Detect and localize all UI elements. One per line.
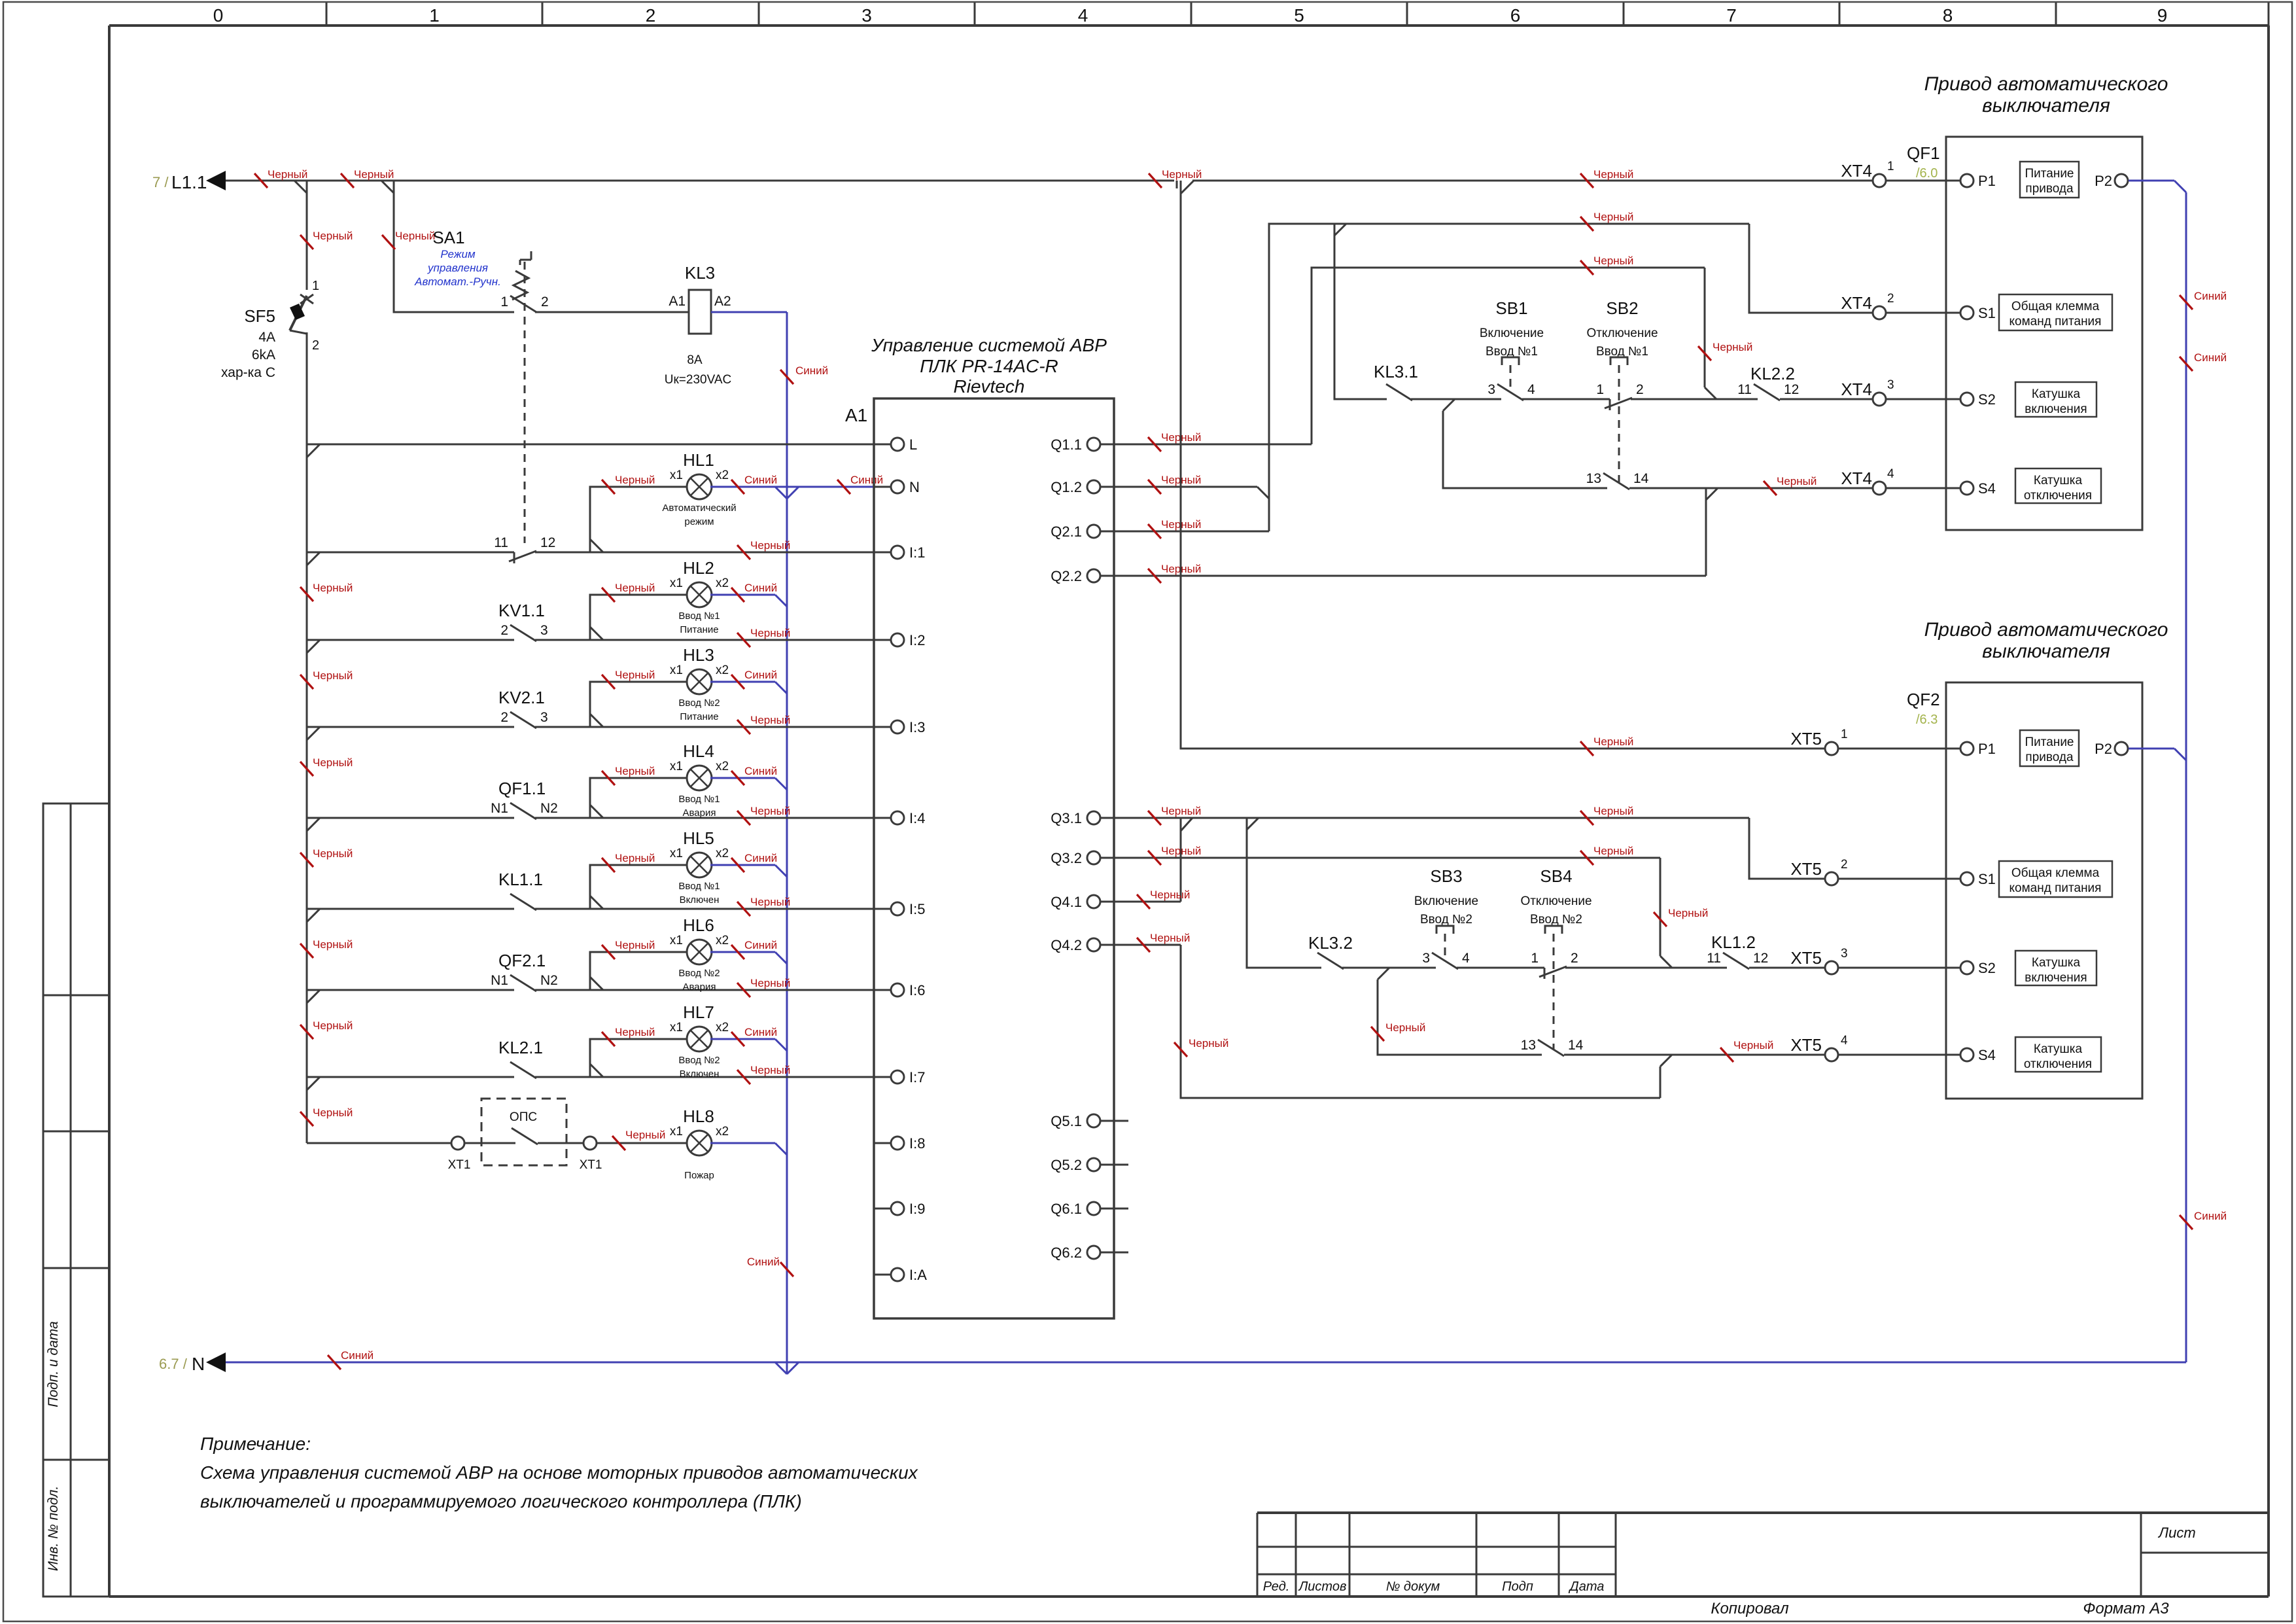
junction V blue at N pin (775, 487, 787, 499)
svg-text:I:3: I:3 (909, 719, 925, 735)
wire color label Синий (731, 945, 744, 959)
wire lamp to N vertical (710, 864, 775, 866)
svg-text:SB3: SB3 (1430, 866, 1462, 886)
wire color label Черный (1580, 260, 1593, 275)
wire lamp to N vertical (710, 681, 775, 683)
wire color label Черный (737, 983, 750, 997)
svg-text:управления: управления (427, 262, 488, 274)
svg-text:Черный: Черный (1593, 255, 1633, 267)
junction fillet vE2 (1378, 968, 1389, 980)
svg-text:Черный: Черный (750, 627, 790, 639)
svg-text:KV2.1: KV2.1 (498, 688, 545, 707)
wire XT1 to HL8 (597, 1142, 688, 1144)
svg-text:Черный: Черный (750, 539, 790, 552)
wire color label Синий (731, 480, 744, 494)
svg-text:2: 2 (1636, 382, 1644, 397)
svg-text:Черный: Черный (615, 669, 655, 681)
wire color label Черный (300, 1025, 313, 1039)
wire color label Черный (300, 675, 313, 689)
svg-text:/6.3: /6.3 (1916, 713, 1938, 727)
svg-text:XT4: XT4 (1841, 293, 1872, 313)
wire KL1.2 to XT5-3 (1749, 967, 1825, 969)
svg-text:Синий: Синий (2194, 351, 2227, 364)
label box Катушка включения QF2 (2015, 951, 2096, 985)
wire XT4-3 to QF1 (1886, 398, 1946, 400)
svg-text:Автоматический: Автоматический (662, 503, 736, 514)
svg-text:HL5: HL5 (683, 828, 714, 848)
svg-text:Черный: Черный (1593, 211, 1633, 223)
wire bottom riser (1660, 1067, 1661, 1098)
wire row I + contact KL2.1 (307, 1076, 514, 1078)
wire Q2.1 to vB (1114, 531, 1269, 533)
svg-text:Черный: Черный (1385, 1021, 1425, 1034)
svg-text:Ввод №1: Ввод №1 (678, 610, 720, 622)
wire color label Синий (2180, 295, 2193, 309)
svg-text:Черный: Черный (1593, 805, 1633, 817)
wire row I + contact KV2.1 (307, 726, 514, 728)
svg-text:8A: 8A (687, 353, 703, 367)
svg-text:13: 13 (1586, 471, 1601, 486)
svg-text:Q1.2: Q1.2 (1051, 479, 1082, 495)
wire color label Черный (1149, 173, 1162, 188)
wire color label Черный (300, 762, 313, 776)
wire color label Синий (780, 370, 793, 384)
svg-text:x1: x1 (670, 468, 683, 482)
svg-text:N1: N1 (491, 973, 508, 988)
svg-text:Черный: Черный (615, 474, 655, 486)
junction fillet vB2 (1247, 818, 1259, 830)
wire row L (307, 444, 874, 446)
wire vE drop (1443, 411, 1607, 488)
svg-text:Черный: Черный (615, 852, 655, 864)
wire SA1 branch (394, 181, 514, 312)
svg-text:Q4.1: Q4.1 (1051, 894, 1082, 910)
pin P1 QF1 (1946, 180, 1960, 182)
wire vC riser (1312, 268, 1705, 444)
pin Q1.1 (1087, 438, 1100, 451)
pin Q3.2 (1087, 851, 1100, 864)
svg-text:8: 8 (1943, 5, 1953, 26)
svg-text:N2: N2 (540, 801, 558, 816)
svg-text:Ввод №2: Ввод №2 (678, 697, 720, 709)
pin L (874, 444, 891, 446)
svg-text:HL4: HL4 (683, 741, 714, 761)
svg-text:Черный: Черный (313, 230, 353, 242)
wire color label Синий (731, 1032, 744, 1046)
wire bus lower (306, 332, 308, 1143)
wire color label Черный (737, 811, 750, 825)
wire lamp to N vertical (710, 777, 775, 779)
wire Q4.2 drop (1181, 945, 1660, 1098)
svg-text:11: 11 (1737, 382, 1752, 397)
svg-text:Формат А3: Формат А3 (2083, 1600, 2169, 1617)
wire N line (226, 1362, 2186, 1364)
label box Катушка отключения QF1 (2015, 468, 2101, 503)
svg-text:3: 3 (540, 623, 548, 638)
wire stub (1114, 1208, 1128, 1210)
svg-text:Черный: Черный (1733, 1039, 1773, 1051)
wire color label Черный (602, 588, 615, 602)
wire color label Черный (1580, 851, 1593, 865)
wire bus to XT1 (307, 1142, 451, 1144)
pin S2 QF1 (1946, 398, 1960, 400)
pin Q1.2 (1087, 480, 1100, 493)
wire Q3.1 row (1114, 817, 1749, 819)
wire SB2 to KL2.2 (1631, 398, 1758, 400)
svg-text:Черный: Черный (615, 939, 655, 951)
wire lamp branch HL5 (590, 865, 688, 909)
svg-text:KL3.2: KL3.2 (1308, 933, 1353, 953)
svg-text:Общая клемма: Общая клемма (2011, 300, 2100, 313)
svg-text:Rievtech: Rievtech (954, 376, 1025, 397)
svg-text:Включение: Включение (1480, 327, 1544, 340)
pin Q5.1 (1087, 1114, 1100, 1127)
wire row I + contact SA1 pole 2 (11-12) (307, 552, 514, 554)
label box Катушка включения QF1 (2015, 382, 2096, 417)
svg-text:XT5: XT5 (1790, 729, 1822, 749)
terminal XT4 3 (1873, 393, 1886, 406)
svg-text:выключателей и программируемог: выключателей и программируемого логическ… (200, 1491, 802, 1511)
svg-text:Q5.2: Q5.2 (1051, 1157, 1082, 1173)
svg-text:Черный: Черный (354, 168, 394, 181)
svg-text:Черный: Черный (313, 756, 353, 769)
svg-text:SB2: SB2 (1606, 298, 1638, 318)
wire lamp to N vertical (710, 594, 775, 596)
wire color label Черный (737, 545, 750, 559)
svg-text:x1: x1 (670, 760, 683, 773)
svg-text:Черный: Черный (750, 805, 790, 817)
svg-text:N: N (909, 479, 920, 495)
wire color label Синий (2180, 357, 2193, 371)
wire HL8 to N vertical (710, 1142, 775, 1144)
svg-text:Черный: Черный (1162, 168, 1202, 181)
svg-text:Черный: Черный (1593, 845, 1633, 857)
wire stub (1114, 1164, 1128, 1166)
pin I:4 (874, 817, 891, 819)
svg-text:6.7 /: 6.7 / (159, 1356, 188, 1372)
svg-text:KL2.1: KL2.1 (498, 1038, 543, 1057)
junction fillet rail-602 (381, 181, 394, 193)
svg-text:11: 11 (494, 535, 508, 550)
svg-text:1: 1 (1841, 728, 1848, 741)
svg-text:Включение: Включение (1414, 894, 1478, 908)
svg-text:включения: включения (2025, 971, 2087, 985)
pin Q5.2 (1087, 1158, 1100, 1171)
wire vA2 link (1180, 818, 1182, 902)
pin Q6.1 (1087, 1202, 1100, 1215)
svg-text:x1: x1 (670, 1021, 683, 1034)
svg-text:QF1: QF1 (1907, 143, 1940, 163)
svg-text:Черный: Черный (313, 669, 353, 682)
svg-text:x2: x2 (716, 934, 729, 947)
svg-text:4: 4 (1887, 467, 1894, 481)
svg-text:Синий: Синий (744, 474, 777, 486)
svg-text:4: 4 (1527, 382, 1535, 397)
wire lamp branch HL3 (590, 682, 688, 727)
svg-text:Q5.1: Q5.1 (1051, 1113, 1082, 1129)
svg-text:0: 0 (213, 5, 224, 26)
svg-text:SB4: SB4 (1540, 866, 1572, 886)
wire color label Черный (300, 1112, 313, 1126)
wire SB1 to SB2 (1522, 398, 1610, 400)
pin S4 QF1 (1946, 487, 1960, 489)
svg-text:привода: привода (2025, 182, 2074, 196)
svg-text:Питание: Питание (680, 711, 718, 722)
wire v2606 drop (1704, 268, 1706, 387)
svg-text:ОПС: ОПС (510, 1110, 537, 1124)
svg-text:Ред.: Ред. (1263, 1580, 1290, 1594)
pin N (874, 486, 891, 488)
svg-text:Автомат.-Ручн.: Автомат.-Ручн. (414, 275, 501, 288)
label box Питание привода QF1 (2020, 162, 2079, 198)
pin I:5 (874, 908, 891, 910)
wire color label Черный (602, 771, 615, 785)
wire color label Черный (737, 720, 750, 734)
svg-text:HL1: HL1 (683, 450, 714, 470)
svg-text:Привод автоматического: Привод автоматического (1924, 73, 2168, 95)
wire SA1 to KL3 (535, 311, 689, 313)
wire color label Черный (737, 902, 750, 916)
svg-text:Черный: Черный (615, 582, 655, 594)
svg-text:Q4.2: Q4.2 (1051, 937, 1082, 953)
junction V blue at N line (775, 1362, 787, 1374)
wire color label Черный (300, 587, 313, 601)
wire color label Синий (731, 675, 744, 689)
wire color label Синий (780, 1262, 793, 1277)
svg-text:1: 1 (312, 279, 319, 293)
svg-text:Дата: Дата (1569, 1580, 1605, 1594)
pin Q3.1 (1087, 811, 1100, 824)
wire color label Черный (1654, 912, 1667, 927)
svg-text:Инв. № подл.: Инв. № подл. (46, 1486, 61, 1571)
wire lamp to N vertical (710, 1038, 775, 1040)
wire color label Синий (731, 588, 744, 602)
junction fillet rail-vA (1181, 181, 1194, 194)
svg-text:Синий: Синий (747, 1256, 780, 1268)
wire Q4.2 row (1114, 944, 1181, 946)
svg-text:L: L (909, 436, 917, 453)
wire SB3 to SB4 (1457, 967, 1544, 969)
wire color label Черный (341, 173, 354, 188)
terminal XT4 4 (1873, 482, 1886, 495)
wire KL2.2 to XT4-3 (1780, 398, 1873, 400)
svg-text:KL3: KL3 (685, 263, 715, 283)
svg-text:4A: 4A (258, 330, 275, 345)
svg-text:Черный: Черный (1593, 735, 1633, 748)
wire XT5-4 to QF2 (1838, 1054, 1946, 1056)
svg-text:Черный: Черный (313, 1019, 353, 1032)
svg-text:SA1: SA1 (432, 228, 464, 247)
label box Общая клемма QF2 (1999, 861, 2112, 897)
svg-text:Синий: Синий (2194, 290, 2227, 302)
svg-text:3: 3 (861, 5, 872, 26)
svg-text:KL3.1: KL3.1 (1374, 362, 1418, 381)
svg-text:Черный: Черный (1161, 845, 1201, 857)
wire color label Черный (1148, 524, 1161, 538)
fire alarm box ОПС (481, 1099, 566, 1165)
wire Q1.2 to vB (1114, 486, 1257, 488)
svg-text:Режим: Режим (440, 248, 476, 260)
svg-text:Питание: Питание (2025, 167, 2074, 181)
svg-text:Синий: Синий (744, 939, 777, 951)
wire color label Черный (602, 675, 615, 689)
svg-text:Синий: Синий (2194, 1210, 2227, 1222)
wire Q3.2 row (1114, 857, 1660, 859)
svg-text:x2: x2 (716, 576, 729, 590)
svg-text:Ввод №1: Ввод №1 (678, 881, 720, 892)
svg-text:Черный: Черный (625, 1129, 665, 1141)
pin P1 QF2 (1946, 748, 1960, 750)
pin I:6 (874, 989, 891, 991)
svg-text:S4: S4 (1978, 480, 1996, 497)
svg-text:HL7: HL7 (683, 1002, 714, 1022)
svg-text:6: 6 (1510, 5, 1521, 26)
svg-text:Питание: Питание (2025, 735, 2074, 749)
wire color label Черный (737, 1070, 750, 1084)
junction fillet vE (1443, 399, 1455, 411)
svg-text:2: 2 (500, 623, 508, 638)
svg-text:Пожар: Пожар (684, 1170, 714, 1181)
wire row I + contact QF2.1 (307, 989, 514, 991)
svg-text:Включен: Включен (680, 1068, 720, 1080)
svg-text:SF5: SF5 (244, 306, 275, 326)
svg-text:Синий: Синий (850, 474, 883, 486)
svg-text:Черный: Черный (313, 938, 353, 951)
wire color label Черный (737, 633, 750, 647)
svg-text:14: 14 (1568, 1038, 1584, 1053)
pin P2 QF1 (2115, 174, 2128, 187)
svg-text:Черный: Черный (313, 582, 353, 594)
wire row I + contact QF1.1 (307, 817, 514, 819)
pin I:2 (874, 639, 891, 641)
pin S1 QF2 (1946, 878, 1960, 880)
pin I:A (874, 1274, 891, 1276)
svg-text:Синий: Синий (744, 669, 777, 681)
wire stub (1114, 1120, 1128, 1122)
svg-text:ПЛК PR-14AC-R: ПЛК PR-14AC-R (920, 356, 1058, 376)
wire lamp branch HL6 (590, 952, 688, 990)
svg-text:XT5: XT5 (1790, 859, 1822, 879)
svg-text:Черный: Черный (1777, 475, 1817, 487)
wire v2538 drop (1660, 858, 1661, 956)
svg-text:N1: N1 (491, 801, 508, 816)
svg-text:Q6.1: Q6.1 (1051, 1201, 1082, 1217)
svg-text:хар-ка C: хар-ка C (221, 365, 275, 380)
svg-text:7 /: 7 / (152, 174, 169, 190)
svg-text:I:8: I:8 (909, 1135, 925, 1152)
svg-text:1: 1 (1596, 382, 1604, 397)
svg-text:12: 12 (1784, 382, 1799, 397)
svg-text:Схема управления системой АВР: Схема управления системой АВР на основе … (200, 1462, 918, 1483)
svg-text:выключателя: выключателя (1982, 641, 2110, 662)
pin P2 QF2 (2115, 742, 2128, 755)
svg-text:Управление системой АВР: Управление системой АВР (871, 335, 1107, 355)
svg-text:I:6: I:6 (909, 982, 925, 998)
wire color label Черный (1580, 811, 1593, 825)
svg-text:Синий: Синий (341, 1349, 374, 1362)
wire S1 drop (1749, 224, 1873, 313)
svg-text:Отключение: Отключение (1586, 327, 1658, 340)
svg-text:KV1.1: KV1.1 (498, 601, 545, 620)
svg-text:Черный: Черный (615, 765, 655, 777)
wire lamp branch HL7 (590, 1039, 688, 1077)
svg-text:Привод автоматического: Привод автоматического (1924, 619, 2168, 641)
terminal XT5 3 (1825, 961, 1838, 974)
pin I:8 (874, 1142, 891, 1144)
wire color label Черный (1148, 437, 1161, 451)
wire color label Черный (1720, 1048, 1733, 1062)
svg-text:Q2.2: Q2.2 (1051, 568, 1082, 584)
wire bus upper (306, 181, 308, 290)
wire blue riser right (2185, 192, 2187, 1362)
wire S1 drop QF2 (1749, 818, 1825, 879)
svg-text:QF2: QF2 (1907, 690, 1940, 709)
svg-text:S2: S2 (1978, 391, 1996, 408)
wire lamp branch HL2 (590, 595, 688, 640)
wire L1.1 rail (226, 180, 1174, 182)
svg-text:Ввод №2: Ввод №2 (678, 968, 720, 979)
wire XT4-1 to QF1 (1886, 180, 1946, 182)
pin Q4.1 (1087, 895, 1100, 908)
svg-text:Черный: Черный (750, 1064, 790, 1076)
wire XT5-1 to QF2 (1838, 748, 1946, 750)
wire color label Черный (1148, 851, 1161, 865)
svg-text:Черный: Черный (750, 896, 790, 908)
svg-text:x1: x1 (670, 576, 683, 590)
svg-text:Черный: Черный (313, 847, 353, 860)
svg-text:12: 12 (540, 535, 555, 550)
svg-text:выключателя: выключателя (1982, 95, 2110, 116)
terminal XT4 1 (1873, 174, 1886, 187)
svg-text:1: 1 (1531, 951, 1539, 966)
svg-text:5: 5 (1294, 5, 1304, 26)
svg-text:Черный: Черный (1668, 907, 1708, 919)
wire color label Черный (602, 858, 615, 872)
svg-text:Катушка: Катушка (2034, 1042, 2083, 1056)
wire P2 QF1 to blue riser (2129, 180, 2174, 182)
pin I:3 (874, 726, 891, 728)
junction fillet v2608 (1706, 488, 1718, 500)
pin S1 QF1 (1946, 312, 1960, 314)
wire color label Черный (300, 235, 313, 249)
contact ОПС (464, 1142, 481, 1144)
PLC A1 box (874, 398, 1114, 1318)
svg-text:XT4: XT4 (1841, 380, 1872, 399)
svg-text:I:7: I:7 (909, 1069, 925, 1086)
svg-text:x2: x2 (716, 760, 729, 773)
wire color label Синий (731, 771, 744, 785)
wire color label Черный (1148, 480, 1161, 494)
svg-text:3: 3 (540, 710, 548, 725)
svg-text:P2: P2 (2095, 741, 2112, 757)
svg-text:I:9: I:9 (909, 1201, 925, 1217)
svg-text:XT4: XT4 (1841, 161, 1872, 181)
wire color label Черный (602, 1032, 615, 1046)
svg-text:1: 1 (1887, 160, 1894, 173)
svg-text:включения: включения (2025, 402, 2087, 416)
contact SB2 aux 13-14 (1603, 473, 1629, 489)
svg-text:S4: S4 (1978, 1047, 1996, 1063)
svg-text:2: 2 (500, 710, 508, 725)
svg-text:I:5: I:5 (909, 901, 925, 917)
pin I:9 (874, 1208, 891, 1210)
wire color label Черный (1137, 938, 1150, 952)
svg-text:x2: x2 (716, 1125, 729, 1139)
svg-text:Копировал: Копировал (1711, 1600, 1789, 1617)
label box Общая клемма QF1 (1999, 294, 2112, 330)
svg-text:отключения: отключения (2024, 489, 2092, 503)
pin I:1 (874, 552, 891, 554)
